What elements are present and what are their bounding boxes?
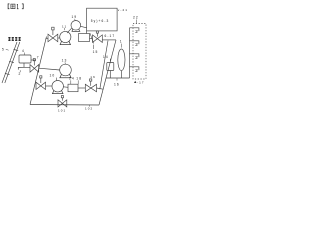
condenser ellipse [118,49,125,71]
valve V4 actuator [33,59,35,61]
svg-text:19: 19 [72,15,78,19]
svg-text:10: 10 [50,74,56,78]
valve V2 stem [96,33,98,37]
wire V3 to P4 [46,85,53,87]
sensor box 14 [107,63,114,71]
svg-text:1: 1 [120,39,123,43]
wire right section bottom [106,77,129,79]
wire riser to controller [86,31,88,34]
svg-text:14: 14 [103,55,109,59]
svg-text:2: 2 [19,72,22,76]
node tick into chamber [136,20,138,24]
pump P1 [60,31,71,42]
nozzle 2 (unit 1) [130,28,139,31]
bottom return wire [30,104,99,107]
svg-text:18: 18 [76,77,82,81]
leader tick P4 [55,78,57,81]
valve V3 [36,82,46,89]
svg-text:7: 7 [37,55,40,59]
svg-text:6-17: 6-17 [105,34,116,38]
svg-text:13: 13 [62,59,68,63]
pump P4 base [52,91,63,94]
node tick to box B1 [24,53,26,56]
svg-text:22: 22 [133,16,139,20]
drain pipe hatch ticks [5,49,18,74]
svg-text:v-21: v-21 [118,8,128,12]
valve V4 stem [33,61,35,66]
svg-text:16: 16 [90,75,96,79]
valve V5 stem [90,81,92,86]
wire V2 to corner [102,39,116,41]
tank B1 [19,55,31,63]
valve V5 [85,84,96,92]
kanji label (water supply) [8,37,21,40]
heat exchanger R1 [79,34,90,42]
valve V7 stem [61,98,63,101]
svg-text:2: 2 [135,29,139,34]
valve V2 actuator [96,31,98,33]
valve V1 actuator [52,27,54,30]
svg-text:2: 2 [135,42,139,47]
wire middle row left [18,67,30,69]
pump P2 [71,21,81,31]
svg-text:5: 5 [2,48,5,52]
wire P1 to P2 [67,28,72,33]
svg-text:24: 24 [69,77,75,81]
wire B1 right stub [31,59,36,61]
nozzle 2 (unit 3) [130,54,139,57]
controller box 21 [87,8,118,31]
pump P1 base [60,41,71,44]
svg-text:5y)+6-3: 5y)+6-3 [91,19,110,23]
leader 15 [90,33,94,49]
svg-text:101: 101 [58,109,66,113]
wire B1 down to middle line [23,63,25,67]
wire V5 to diagonal [97,88,104,89]
pump P3 [60,64,72,76]
pump P4 [52,81,63,92]
wire P2 to riser [81,26,87,28]
svg-text:2: 2 [135,55,139,60]
valve V2 [93,35,103,43]
valve V1 [48,34,58,42]
drain pipe double diagonal [2,42,20,83]
svg-text:16: 16 [114,83,120,87]
diagonal outer right [99,40,116,105]
diagonal inner right [100,41,108,90]
wire R2 to V5 [78,87,85,89]
svg-text:15: 15 [93,50,99,54]
pump P3 base [59,74,71,78]
svg-text:102: 102 [85,107,93,111]
wire valve V4 to pump P3 [39,68,60,70]
wire R1 to V2 [90,37,93,39]
figure title [Fig 1] [8,4,9,9]
valve V1 stem [52,30,54,35]
wire ellipse to bottom line [120,71,122,78]
svg-text:-17: -17 [137,81,145,85]
wire box14 to bottom line [109,71,111,79]
chamber dashed box [133,24,146,80]
wire P4 to R2 [63,86,68,89]
svg-text:11: 11 [62,24,67,28]
wire V1 to P1 [58,37,60,39]
filter R2 [68,84,78,92]
valve V3 actuator [40,76,42,78]
nozzle 2 (unit 4) [130,67,139,70]
nozzle 2 (unit 2) [130,41,139,44]
valve V5 actuator [90,79,92,81]
valve V7 actuator [61,96,63,98]
left diagonal [30,37,47,105]
valve V4 [30,65,39,73]
valve V3 stem [40,78,42,83]
pump P2 base [72,29,81,31]
svg-text:2: 2 [135,68,139,73]
svg-text:4: 4 [22,49,25,53]
valve V7 [58,100,67,107]
wire top edge left [46,37,48,39]
supply bus [129,28,131,78]
label 4-17 [134,81,136,83]
